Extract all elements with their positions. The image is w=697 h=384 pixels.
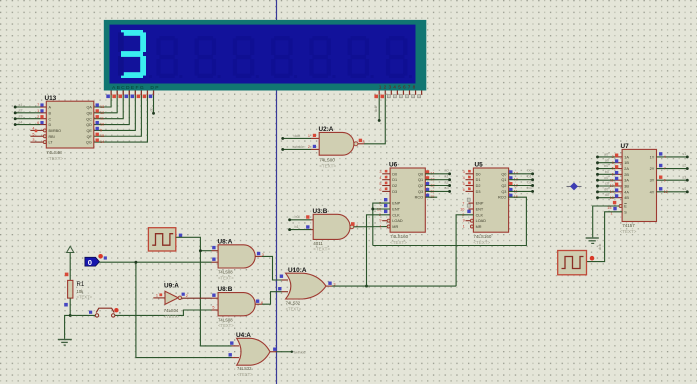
svg-text:9: 9 xyxy=(379,219,381,223)
svg-text:5: 5 xyxy=(212,305,214,309)
svg-text:74LS08: 74LS08 xyxy=(218,317,233,322)
svg-text:C: C xyxy=(49,117,52,121)
svg-text:3A: 3A xyxy=(624,179,629,183)
svg-text:4: 4 xyxy=(356,224,358,228)
svg-text:s3: s3 xyxy=(682,175,686,179)
svg-text:s3: s3 xyxy=(19,115,23,119)
clock source DCLOCK2 xyxy=(558,251,595,275)
svg-text:b0': b0' xyxy=(295,215,300,219)
svg-text:74LS160: 74LS160 xyxy=(390,234,409,239)
svg-text:5: 5 xyxy=(463,182,465,186)
svg-text:4B: 4B xyxy=(624,196,629,200)
svg-text:10: 10 xyxy=(460,207,464,211)
wire U8:A output to U10:A input 1 xyxy=(262,256,282,280)
svg-text:U9:A: U9:A xyxy=(164,283,179,290)
AND gate U8:A 74LS08 xyxy=(212,238,264,280)
svg-text:3Y: 3Y xyxy=(650,179,655,183)
svg-text:5: 5 xyxy=(379,182,381,186)
svg-text:D0: D0 xyxy=(476,172,481,176)
svg-text:Q0: Q0 xyxy=(501,172,506,176)
svg-text:LOAD: LOAD xyxy=(476,219,487,223)
svg-text:ENP: ENP xyxy=(476,202,484,206)
wire net b1 to U3:B input 2 xyxy=(288,225,311,231)
svg-text:dp: dp xyxy=(149,108,153,112)
svg-text:b0: b0 xyxy=(527,169,531,173)
wire U13.QB to display pin B xyxy=(94,91,117,113)
svg-text:S: S xyxy=(624,210,627,214)
svg-text:<TEXT>: <TEXT> xyxy=(286,306,302,311)
svg-text:12: 12 xyxy=(100,111,104,115)
svg-text:U3:B: U3:B xyxy=(313,208,328,215)
svg-text:6: 6 xyxy=(37,121,39,125)
wire U4:A output to net twinkle xyxy=(277,351,306,355)
svg-text:D3: D3 xyxy=(476,190,481,194)
svg-text:RCO: RCO xyxy=(415,196,423,200)
svg-text:6: 6 xyxy=(612,173,614,177)
wire U8:B output to U10:A input 2 xyxy=(262,292,282,305)
NAND gate U3:B 4011 xyxy=(306,208,358,252)
counter U5 74LS160 xyxy=(460,162,534,245)
svg-text:dclk: dclk xyxy=(598,244,602,250)
wire U5 CLK from clock bus xyxy=(456,215,473,286)
svg-text:ENT: ENT xyxy=(476,208,484,212)
svg-text:a3: a3 xyxy=(444,186,448,190)
svg-text:74LS160: 74LS160 xyxy=(473,234,492,239)
svg-text:9: 9 xyxy=(463,219,465,223)
wire display DP pin down to net label xyxy=(149,91,155,115)
svg-text:74157: 74157 xyxy=(622,223,635,228)
wire button bus to U8:B input 2 xyxy=(70,310,211,315)
svg-text:QF: QF xyxy=(87,135,93,139)
svg-text:<TEXT>: <TEXT> xyxy=(319,163,336,168)
svg-text:<TEXT>: <TEXT> xyxy=(473,240,490,245)
svg-text:<TEXT>: <TEXT> xyxy=(164,314,180,319)
svg-text:D3: D3 xyxy=(392,190,397,194)
svg-text:s1: s1 xyxy=(682,152,686,156)
svg-text:c0': c0' xyxy=(604,176,609,180)
wire U5 RCO loop to U6 ENT xyxy=(373,197,527,245)
svg-text:<TEXT>: <TEXT> xyxy=(77,295,93,300)
svg-text:3: 3 xyxy=(463,170,465,174)
svg-text:1Y: 1Y xyxy=(650,155,655,159)
svg-text:2Y: 2Y xyxy=(650,167,655,171)
svg-text:<TEXT>: <TEXT> xyxy=(218,275,234,280)
svg-text:ENP: ENP xyxy=(392,202,400,206)
svg-text:U8:A: U8:A xyxy=(218,238,233,245)
display right pin stubs and markers (1-8) xyxy=(374,91,421,99)
svg-text:12: 12 xyxy=(664,190,668,194)
svg-text:5: 5 xyxy=(612,167,614,171)
svg-text:b3: b3 xyxy=(527,186,531,190)
svg-text:0: 0 xyxy=(88,258,92,267)
svg-text:D1: D1 xyxy=(392,178,397,182)
decoder U13 74LS48 xyxy=(14,95,104,161)
svg-text:a1: a1 xyxy=(444,175,448,179)
svg-text:U10:A: U10:A xyxy=(288,267,307,274)
svg-text:b0: b0 xyxy=(605,170,609,174)
svg-text:b1': b1' xyxy=(295,225,300,229)
svg-text:1: 1 xyxy=(463,225,465,229)
wire display pin 2 to U2:A output xyxy=(364,95,385,144)
svg-text:74LS00: 74LS00 xyxy=(319,158,335,163)
svg-text:74LS32: 74LS32 xyxy=(286,301,301,306)
ground at U7 enable xyxy=(586,238,602,250)
resistor R1 10k xyxy=(64,273,92,307)
pushbutton xyxy=(89,308,121,317)
svg-text:<TEXT>: <TEXT> xyxy=(620,229,637,234)
svg-text:U6: U6 xyxy=(389,162,398,169)
svg-text:1A: 1A xyxy=(624,155,629,159)
wire U6 RCO stub xyxy=(425,196,437,198)
svg-text:LOAD: LOAD xyxy=(392,219,403,223)
svg-text:11: 11 xyxy=(100,117,104,121)
svg-text:BI/RBO: BI/RBO xyxy=(49,129,62,133)
svg-text:ABCDEFG DP: ABCDEFG DP xyxy=(112,85,159,91)
svg-text:Q1: Q1 xyxy=(418,178,423,182)
svg-text:D2: D2 xyxy=(392,184,397,188)
OR gate U10:A 74LS32 xyxy=(278,267,335,311)
svg-text:6: 6 xyxy=(463,188,465,192)
svg-text:2: 2 xyxy=(37,115,39,119)
8-digit 7-segment display DS1 xyxy=(104,20,427,91)
counter U6 74LS160 xyxy=(377,162,451,245)
wire U7 S to clock source DCLOCK2 xyxy=(587,212,623,262)
svg-text:15: 15 xyxy=(100,134,104,138)
svg-text:Q3: Q3 xyxy=(501,190,506,194)
wire U6 ENP/ENT join xyxy=(371,203,390,245)
svg-text:<TEXT>: <TEXT> xyxy=(313,247,330,252)
svg-text:d0: d0 xyxy=(605,193,609,197)
svg-text:13: 13 xyxy=(100,105,104,109)
svg-text:2B: 2B xyxy=(624,173,629,177)
svg-text:b0': b0' xyxy=(604,164,609,168)
svg-text:4: 4 xyxy=(32,126,34,130)
svg-text:13: 13 xyxy=(610,196,614,200)
power arrow above R1 xyxy=(67,246,74,280)
wire logicstate to U8:A input 2 and U4:A input 2 xyxy=(100,261,232,358)
wire U3:B output to U6 MR xyxy=(354,226,387,228)
svg-text:a0: a0 xyxy=(444,169,448,173)
svg-text:RCO: RCO xyxy=(498,196,506,200)
display left pin state squares (A-G, DP) xyxy=(106,91,153,99)
inverter U9:A 74LS04 xyxy=(153,283,188,319)
svg-text:3: 3 xyxy=(612,161,614,165)
svg-text:s4: s4 xyxy=(682,187,686,191)
svg-text:QE: QE xyxy=(86,129,92,133)
sheet border (blue vertical line) xyxy=(276,0,278,384)
svg-text:2A: 2A xyxy=(624,167,629,171)
svg-text:11: 11 xyxy=(610,178,614,182)
svg-text:9: 9 xyxy=(100,128,102,132)
svg-text:7: 7 xyxy=(37,103,39,107)
wire U7 E to ground xyxy=(593,206,619,237)
wire U9:A output to U8:B input 1 xyxy=(182,297,212,299)
svg-text:5: 5 xyxy=(32,132,34,136)
svg-text:s2: s2 xyxy=(682,164,686,168)
svg-text:1: 1 xyxy=(308,134,310,138)
svg-text:U2:A: U2:A xyxy=(319,126,334,133)
wire display pin 1 to net label dclk xyxy=(374,95,381,122)
svg-text:<TEXT>: <TEXT> xyxy=(218,323,234,328)
svg-text:14: 14 xyxy=(610,190,614,194)
svg-text:dclk: dclk xyxy=(294,134,301,138)
ground at R1 xyxy=(58,340,72,346)
svg-text:2: 2 xyxy=(308,145,310,149)
OR gate U4:A 74LS32 xyxy=(229,332,277,377)
svg-text:c0: c0 xyxy=(605,182,609,186)
svg-text:4011: 4011 xyxy=(313,241,323,246)
svg-text:1B: 1B xyxy=(624,161,629,165)
svg-text:CLK: CLK xyxy=(392,213,400,217)
wire net dclk to U2:A input 1 xyxy=(281,134,311,140)
svg-text:s2: s2 xyxy=(19,109,23,113)
wire U10:A output clock bus xyxy=(332,285,456,287)
svg-text:b1: b1 xyxy=(527,175,531,179)
wire U13.QE to display pin E xyxy=(94,91,136,131)
svg-text:<TEXT>: <TEXT> xyxy=(46,156,63,161)
svg-text:4: 4 xyxy=(664,155,666,159)
wire R1 bottom to ground and button bus xyxy=(65,298,72,339)
clock source DCLOCK1 xyxy=(148,228,182,251)
svg-text:s1: s1 xyxy=(19,103,23,107)
svg-text:CLK: CLK xyxy=(476,213,484,217)
svg-text:4Y: 4Y xyxy=(650,190,655,194)
svg-text:U8:B: U8:B xyxy=(218,286,233,293)
svg-text:E: E xyxy=(624,205,627,209)
svg-text:ENT: ENT xyxy=(392,208,400,212)
wire U6 CLK from clock bus xyxy=(365,215,390,288)
svg-text:MR: MR xyxy=(392,225,398,229)
svg-text:9: 9 xyxy=(664,178,666,182)
svg-text:12345678: 12345678 xyxy=(379,84,416,90)
wire net b0 to U3:B input 1 xyxy=(288,215,311,221)
svg-text:74LS04: 74LS04 xyxy=(164,308,179,313)
svg-text:D0: D0 xyxy=(392,172,397,176)
svg-text:dclk: dclk xyxy=(374,106,378,112)
svg-text:6: 6 xyxy=(379,188,381,192)
svg-text:QG: QG xyxy=(86,141,92,145)
svg-text:a0': a0' xyxy=(604,153,609,157)
svg-text:1: 1 xyxy=(37,109,39,113)
svg-text:14: 14 xyxy=(100,140,104,144)
wire U13.QF to display pin F xyxy=(94,91,142,137)
svg-text:10: 10 xyxy=(100,122,104,126)
svg-text:4: 4 xyxy=(463,176,465,180)
svg-text:1: 1 xyxy=(379,225,381,229)
svg-text:QB: QB xyxy=(86,111,92,115)
svg-text:74LS32: 74LS32 xyxy=(237,366,252,371)
origin marker (blue diamond) xyxy=(567,182,582,190)
wire DCLOCK1 to U8:A input 1 and U4:A input 1 xyxy=(176,237,232,346)
svg-text:RBI: RBI xyxy=(49,135,55,139)
svg-text:R1: R1 xyxy=(77,282,85,288)
wire net twinkle to U2:A input 2 xyxy=(281,145,311,151)
svg-text:3B: 3B xyxy=(624,185,629,189)
svg-text:2: 2 xyxy=(612,155,614,159)
multiplexer U7 74157 xyxy=(596,143,689,234)
svg-text:<TEXT>: <TEXT> xyxy=(390,240,407,245)
svg-text:Q1: Q1 xyxy=(501,178,506,182)
svg-text:twinkle: twinkle xyxy=(294,351,306,355)
NAND gate U2:A 74LS00 xyxy=(308,126,365,168)
svg-text:U13: U13 xyxy=(45,95,57,102)
svg-text:Q0: Q0 xyxy=(418,172,423,176)
svg-text:<TEXT>: <TEXT> xyxy=(237,372,253,377)
svg-text:3: 3 xyxy=(32,138,34,142)
wire U13.QC to display pin C xyxy=(94,91,123,119)
svg-text:a0: a0 xyxy=(605,158,609,162)
svg-text:10: 10 xyxy=(610,184,614,188)
svg-text:QA: QA xyxy=(86,106,92,110)
svg-text:10k: 10k xyxy=(77,289,85,294)
svg-text:7: 7 xyxy=(664,167,666,171)
svg-text:3: 3 xyxy=(379,170,381,174)
svg-text:4: 4 xyxy=(379,176,381,180)
svg-text:MR: MR xyxy=(476,225,482,229)
svg-text:D: D xyxy=(49,123,52,127)
svg-text:4A: 4A xyxy=(624,190,629,194)
svg-text:Q2: Q2 xyxy=(418,184,423,188)
svg-text:7: 7 xyxy=(462,202,464,206)
svg-text:D1: D1 xyxy=(476,178,481,182)
svg-text:twinkle: twinkle xyxy=(293,145,305,149)
svg-text:U7: U7 xyxy=(621,143,630,150)
svg-text:Q2: Q2 xyxy=(501,184,506,188)
AND gate U8:B 74LS08 xyxy=(212,286,264,328)
svg-text:U5: U5 xyxy=(475,162,484,169)
svg-text:d0': d0' xyxy=(604,187,609,191)
svg-text:s4: s4 xyxy=(19,120,23,124)
logic state source 0 xyxy=(85,254,107,267)
svg-text:QD: QD xyxy=(86,123,92,127)
svg-text:Q3: Q3 xyxy=(418,190,423,194)
svg-text:a2: a2 xyxy=(444,180,448,184)
wire U13.QA to display pin A xyxy=(94,91,111,108)
svg-text:1: 1 xyxy=(156,294,158,298)
svg-text:2: 2 xyxy=(186,294,188,298)
svg-text:74LS48: 74LS48 xyxy=(46,150,62,155)
svg-text:QC: QC xyxy=(86,117,92,121)
wire U13.QD to display pin D xyxy=(94,91,129,125)
svg-text:b2: b2 xyxy=(527,180,531,184)
wire U13.QG to display pin G xyxy=(94,91,148,143)
svg-text:3: 3 xyxy=(363,140,365,144)
svg-text:U4:A: U4:A xyxy=(236,332,251,339)
svg-text:D2: D2 xyxy=(476,184,481,188)
svg-text:74LS08: 74LS08 xyxy=(218,270,233,275)
